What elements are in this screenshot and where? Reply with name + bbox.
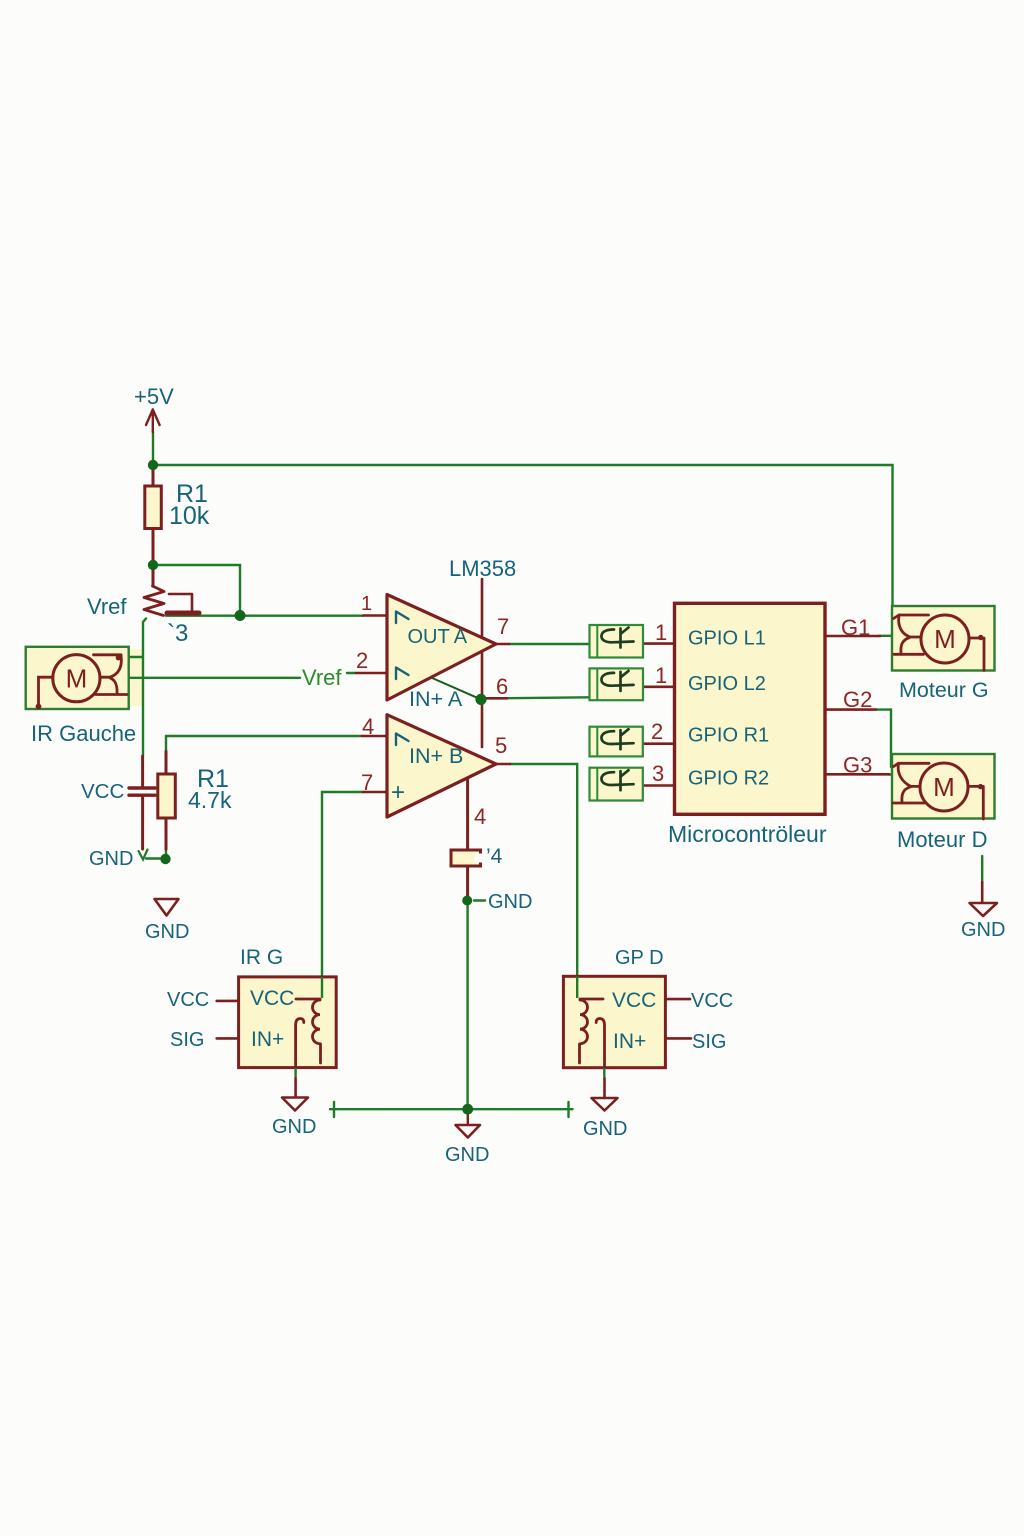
svg-text:GPIO L1: GPIO L1 [688,628,766,650]
svg-text:IN+: IN+ [251,1028,284,1051]
svg-text:7: 7 [361,770,373,795]
svg-text:G1: G1 [841,615,870,640]
svg-text:`3: `3 [167,620,188,647]
svg-text:10k: 10k [169,502,210,530]
svg-text:M: M [933,772,955,802]
svg-text:2: 2 [651,719,663,744]
svg-text:5: 5 [495,733,507,758]
svg-text:SIG: SIG [692,1031,726,1053]
svg-text:4: 4 [362,714,374,739]
svg-text:Moteur G: Moteur G [899,678,989,702]
svg-text:VCC: VCC [81,780,124,803]
svg-text:4: 4 [474,804,486,829]
svg-text:+5V: +5V [134,384,174,409]
svg-text:M: M [934,624,956,654]
svg-text:GND: GND [145,921,189,943]
svg-text:OUT A: OUT A [408,626,468,648]
svg-text:VCC: VCC [250,987,294,1010]
svg-text:GND: GND [488,891,532,913]
svg-text:GND: GND [272,1116,316,1138]
svg-text:+: + [391,779,405,806]
svg-text:LM358: LM358 [449,556,516,581]
svg-text:GP D: GP D [615,947,664,969]
svg-text:GND: GND [583,1118,627,1140]
svg-text:2: 2 [356,648,368,673]
svg-text:GND: GND [445,1144,489,1166]
svg-text:GND: GND [961,919,1005,941]
svg-text:4.7k: 4.7k [188,787,232,813]
svg-text:Vref: Vref [302,665,342,690]
svg-text:IN+ A: IN+ A [409,687,463,711]
svg-text:IN+: IN+ [613,1030,646,1053]
svg-text:VCC: VCC [691,990,733,1012]
svg-text:M: M [66,664,88,694]
svg-text:SIG: SIG [170,1029,204,1051]
svg-text:GPIO L2: GPIO L2 [688,673,766,695]
svg-text:VCC: VCC [612,989,656,1012]
svg-text:IN+ B: IN+ B [409,744,463,768]
svg-text:IR G: IR G [240,946,283,969]
svg-text:G2: G2 [843,687,872,712]
svg-text:GPIO R1: GPIO R1 [688,725,769,747]
svg-text:1: 1 [655,620,667,645]
svg-text:Microcontröleur: Microcontröleur [668,821,827,847]
svg-text:7: 7 [497,614,509,639]
svg-text:3: 3 [652,761,664,786]
svg-text:6: 6 [496,674,508,699]
svg-text:IR Gauche: IR Gauche [31,721,136,746]
svg-text:GPIO R2: GPIO R2 [688,768,769,790]
svg-text:1: 1 [655,663,667,688]
svg-text:Moteur D: Moteur D [897,827,987,852]
svg-text:Vref: Vref [87,594,127,619]
svg-text:1: 1 [361,593,372,615]
svg-text:GND: GND [89,848,133,870]
svg-text:G3: G3 [843,753,872,778]
svg-text:’4: ’4 [486,845,503,868]
svg-text:VCC: VCC [167,989,209,1011]
